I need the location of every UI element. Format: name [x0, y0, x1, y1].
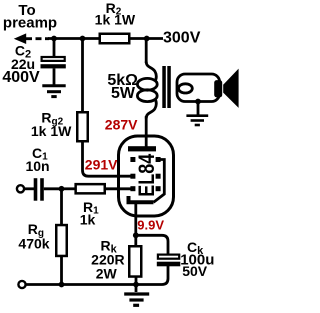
tube anode plate	[128, 146, 156, 151]
wire: grid node down to Rg	[60, 189, 63, 225]
wire: cathode node to Ck	[136, 235, 168, 254]
wire: Rg to bottom rail	[60, 256, 63, 285]
node: grid junction	[59, 186, 65, 192]
capacitor C1	[36, 178, 43, 201]
svg-text:EL84: EL84	[135, 153, 159, 197]
transformer primary winding 5k	[137, 62, 157, 119]
tube EL84 envelope	[119, 136, 174, 216]
ground below C2	[42, 86, 65, 97]
wire: suppressor to cathode	[154, 160, 165, 203]
label 9.9V with halo	[137, 218, 164, 233]
node: cathode ground junction	[133, 282, 139, 288]
wire: 300V node down to transformer primary	[145, 39, 148, 64]
resistor R2	[100, 34, 130, 44]
resistor Rg	[56, 225, 67, 256]
wire: R1 to control grid g1	[105, 187, 131, 190]
svg-text:1k: 1k	[80, 212, 96, 228]
wire: C2 junction down to C2	[53, 39, 56, 58]
node: 300V junction	[144, 36, 150, 42]
resistor Rk	[129, 246, 141, 276]
tube grid g1 dashes	[130, 186, 160, 191]
node: cathode junction	[133, 232, 139, 238]
wire: bottom rail	[26, 266, 168, 285]
wire: cathode down to Rk	[134, 204, 137, 246]
node: Rg2 junction	[80, 36, 86, 42]
wire: Rg2 junction down to Rg2	[81, 39, 84, 113]
svg-text:1k 1W: 1k 1W	[31, 123, 72, 139]
capacitor C2	[41, 57, 66, 68]
wire: Rg2 to screen grid g2	[83, 141, 132, 176]
wire: grid node to R1	[62, 187, 76, 190]
wire: dashed output to preamp with arrowhead	[14, 33, 49, 44]
node: C2 junction	[51, 36, 57, 42]
terminal: input ground	[18, 281, 25, 288]
terminal: input	[17, 185, 24, 192]
ground below secondary	[186, 116, 208, 125]
svg-text:291V: 291V	[85, 157, 118, 173]
transformer secondary	[177, 74, 220, 102]
wire: C1 to grid node	[44, 187, 62, 190]
tube cathode	[129, 196, 154, 202]
resistor R1	[76, 184, 105, 193]
transformer core	[162, 66, 171, 108]
wire: top rail to R2	[48, 37, 99, 40]
ground below cathode network	[124, 285, 149, 306]
svg-text:50V: 50V	[182, 263, 208, 279]
svg-text:10n: 10n	[25, 158, 49, 174]
tube grid g3 dashes	[130, 157, 160, 162]
wire: Rk to rail	[135, 276, 138, 285]
svg-text:400V: 400V	[2, 69, 40, 86]
tube grid g2 dashes	[130, 174, 160, 179]
svg-text:1k 1W: 1k 1W	[95, 12, 136, 28]
svg-text:2W: 2W	[96, 266, 118, 282]
label To preamp	[3, 2, 57, 32]
resistor Rg2	[77, 112, 88, 141]
speaker	[214, 69, 238, 108]
capacitor Ck	[157, 255, 181, 267]
wire: input to C1	[24, 187, 34, 190]
wire: secondary to ground	[197, 102, 200, 115]
svg-text:287V: 287V	[105, 116, 138, 132]
svg-text:470k: 470k	[18, 236, 49, 252]
svg-text:preamp: preamp	[3, 15, 57, 32]
svg-text:300V: 300V	[163, 30, 201, 47]
wire: R2 to 300V node	[129, 37, 147, 40]
node: secondary ground junction	[195, 99, 201, 105]
node: Rg bottom junction	[59, 282, 65, 288]
svg-text:9.9V: 9.9V	[137, 218, 164, 233]
wire: primary to tube anode	[145, 116, 148, 148]
wire: C2 to ground	[53, 68, 56, 85]
wire: stub to 300V label	[147, 37, 163, 40]
svg-text:5W: 5W	[111, 85, 136, 102]
